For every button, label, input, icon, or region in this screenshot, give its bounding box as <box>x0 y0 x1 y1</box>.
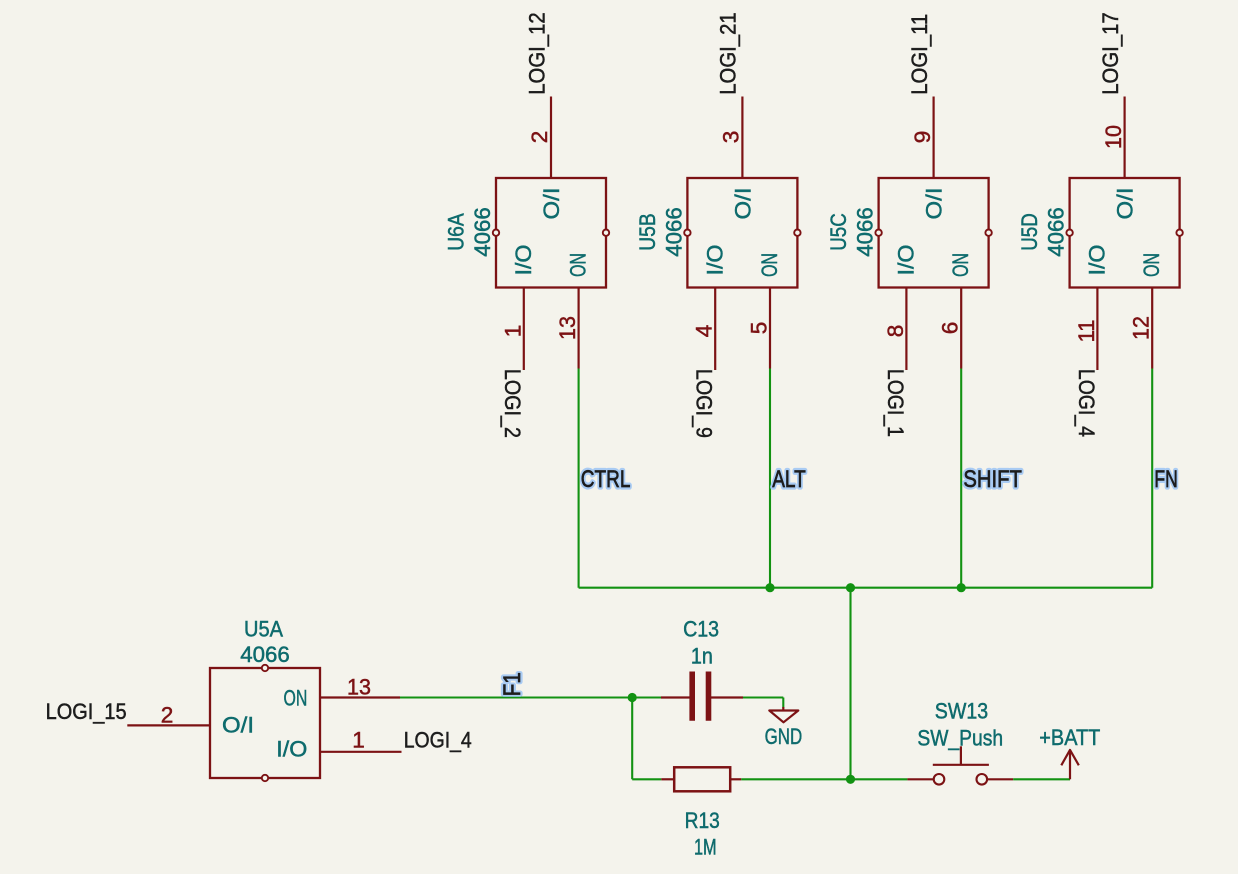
svg-text:I/O: I/O <box>1085 245 1110 276</box>
resistor R13 left pin <box>661 778 674 780</box>
U5A top pin circle <box>262 665 268 671</box>
junction at F1 node <box>628 693 637 702</box>
resistor R13 body <box>674 767 730 791</box>
svg-text:LOGI_17: LOGI_17 <box>1098 12 1123 95</box>
svg-text:11: 11 <box>1074 320 1099 343</box>
ground symbol <box>769 711 798 723</box>
GND symbol stub <box>782 707 784 711</box>
svg-text:LOGI_2: LOGI_2 <box>500 369 525 438</box>
svg-text:O/I: O/I <box>1113 188 1138 220</box>
svg-text:ON: ON <box>757 253 782 277</box>
wire from U6A ON pin down to bus <box>578 369 580 588</box>
svg-text:O/I: O/I <box>222 713 254 738</box>
U6A bottom-right pin <box>577 288 579 369</box>
svg-text:13: 13 <box>555 316 580 340</box>
analog switch U6A body <box>496 178 606 288</box>
wire junction down-leg to R13 <box>632 778 661 780</box>
svg-text:9: 9 <box>910 131 935 144</box>
svg-text:ON: ON <box>948 253 973 277</box>
svg-text:5: 5 <box>747 322 772 335</box>
switch SW13 left pin <box>907 778 933 780</box>
svg-text:U5A: U5A <box>244 617 284 642</box>
svg-text:I/O: I/O <box>703 245 728 276</box>
svg-text:8: 8 <box>883 325 908 338</box>
U5B left pin circle <box>684 230 690 236</box>
svg-text:4066: 4066 <box>1044 207 1069 257</box>
analog switch U5A body <box>210 668 320 778</box>
svg-text:2: 2 <box>527 131 552 144</box>
U5C left pin circle <box>875 230 881 236</box>
+BATT arrow <box>1061 750 1079 765</box>
wire down to GND <box>782 698 784 708</box>
svg-text:U6A: U6A <box>444 212 469 250</box>
U5A I/O pin 1 <box>320 751 402 753</box>
analog switch U5D body <box>1070 178 1180 288</box>
svg-text:LOGI_15: LOGI_15 <box>46 699 127 724</box>
svg-text:SHIFT: SHIFT <box>963 466 1022 493</box>
wire SW13 to +BATT <box>1013 778 1070 780</box>
SW13 actuator bar <box>933 764 989 766</box>
U5C bottom-right pin <box>960 288 962 369</box>
svg-text:ALT: ALT <box>772 466 806 493</box>
wire from U5A pin 13 to junction <box>400 696 632 698</box>
svg-text:LOGI_21: LOGI_21 <box>716 12 741 95</box>
svg-text:O/I: O/I <box>922 188 947 220</box>
svg-text:4066: 4066 <box>661 207 686 257</box>
svg-text:U5B: U5B <box>635 213 660 251</box>
U6A right pin circle <box>603 230 609 236</box>
U5C top pin <box>932 97 934 179</box>
svg-text:SW13: SW13 <box>935 698 988 723</box>
U5B bottom-left pin <box>714 288 716 371</box>
switch SW13 right pin <box>987 778 1013 780</box>
svg-text:SW_Push: SW_Push <box>917 726 1003 751</box>
SW13 left contact circle <box>934 774 945 785</box>
svg-text:4066: 4066 <box>853 207 878 257</box>
svg-text:U5C: U5C <box>826 213 851 251</box>
svg-text:LOGI_4: LOGI_4 <box>404 728 472 753</box>
capacitor C13 right plate <box>706 672 712 721</box>
junction at switch row <box>846 775 855 784</box>
wire from U5B ON pin down to bus <box>769 369 771 588</box>
svg-text:ON: ON <box>565 253 590 277</box>
svg-text:I/O: I/O <box>511 245 536 276</box>
wire from junction down to R13 row <box>631 698 633 780</box>
svg-text:10: 10 <box>1101 125 1126 149</box>
svg-text:ON: ON <box>284 685 308 710</box>
SW13 right contact circle <box>977 774 988 785</box>
svg-text:1: 1 <box>500 325 525 338</box>
U5B bottom-right pin <box>769 288 771 369</box>
wire R13 to junction <box>741 778 850 780</box>
svg-text:LOGI_11: LOGI_11 <box>907 14 932 95</box>
U5D bottom-right pin <box>1151 288 1153 369</box>
capacitor C13 right pin <box>710 696 744 698</box>
U5C right pin circle <box>985 230 991 236</box>
svg-text:LOGI_1: LOGI_1 <box>883 369 908 437</box>
junction on bus below U5C <box>957 583 966 592</box>
U5A input pin 2 <box>127 724 210 726</box>
svg-text:4: 4 <box>692 325 717 338</box>
U6A left pin circle <box>493 230 499 236</box>
U5D left pin circle <box>1066 230 1072 236</box>
svg-text:13: 13 <box>347 675 371 700</box>
svg-text:LOGI_4: LOGI_4 <box>1074 369 1099 437</box>
U6A bottom-left pin <box>523 288 525 371</box>
svg-text:ON: ON <box>1139 253 1164 277</box>
+BATT power symbol stem <box>1069 752 1071 780</box>
wire C13 to GND corner <box>743 696 783 698</box>
U5D right pin circle <box>1176 230 1182 236</box>
resistor R13 right pin <box>730 778 741 780</box>
U5C bottom-left pin <box>905 288 907 371</box>
U5D top pin <box>1123 97 1125 179</box>
svg-text:O/I: O/I <box>539 188 564 220</box>
svg-text:1M: 1M <box>694 835 717 860</box>
svg-text:6: 6 <box>938 322 963 335</box>
U6A top pin <box>550 97 552 179</box>
wire junction to C13 <box>632 696 661 698</box>
analog switch U5C body <box>879 178 989 288</box>
svg-text:3: 3 <box>719 131 744 144</box>
svg-text:C13: C13 <box>683 616 719 641</box>
svg-text:U5D: U5D <box>1017 213 1042 251</box>
svg-text:I/O: I/O <box>894 245 919 276</box>
junction on bus below U5B <box>765 583 774 592</box>
junction on bus at center drop <box>846 583 855 592</box>
svg-text:I/O: I/O <box>276 736 307 761</box>
svg-text:1: 1 <box>352 728 365 753</box>
svg-text:+BATT: +BATT <box>1039 725 1100 750</box>
U5B right pin circle <box>794 230 800 236</box>
svg-text:4066: 4066 <box>470 207 495 257</box>
svg-text:O/I: O/I <box>730 188 755 220</box>
capacitor C13 left pin <box>661 696 691 698</box>
wire from U5C ON pin down to bus <box>960 369 962 588</box>
U5A ON pin 13 <box>320 696 400 698</box>
svg-text:LOGI_9: LOGI_9 <box>692 369 717 438</box>
horizontal bus wire <box>579 587 1153 589</box>
U5B top pin <box>741 97 743 179</box>
svg-text:LOGI_12: LOGI_12 <box>524 12 549 95</box>
svg-text:4066: 4066 <box>240 642 290 667</box>
U5D bottom-left pin <box>1096 288 1098 371</box>
wire junction to SW13 <box>851 778 908 780</box>
svg-text:CTRL: CTRL <box>581 466 631 493</box>
capacitor C13 left plate <box>689 672 695 721</box>
SW13 actuator stem <box>960 746 962 765</box>
analog switch U5B body <box>687 178 797 288</box>
svg-text:R13: R13 <box>685 808 720 833</box>
wire from bus down to switch row <box>849 588 851 780</box>
U5A bottom pin circle <box>262 775 268 781</box>
svg-text:12: 12 <box>1129 316 1154 340</box>
wire from U5D ON pin down to bus <box>1151 369 1153 588</box>
svg-text:GND: GND <box>765 724 803 749</box>
svg-text:FN: FN <box>1154 466 1177 493</box>
svg-text:2: 2 <box>161 702 174 727</box>
svg-text:F1: F1 <box>499 672 526 696</box>
svg-text:1n: 1n <box>691 643 713 668</box>
